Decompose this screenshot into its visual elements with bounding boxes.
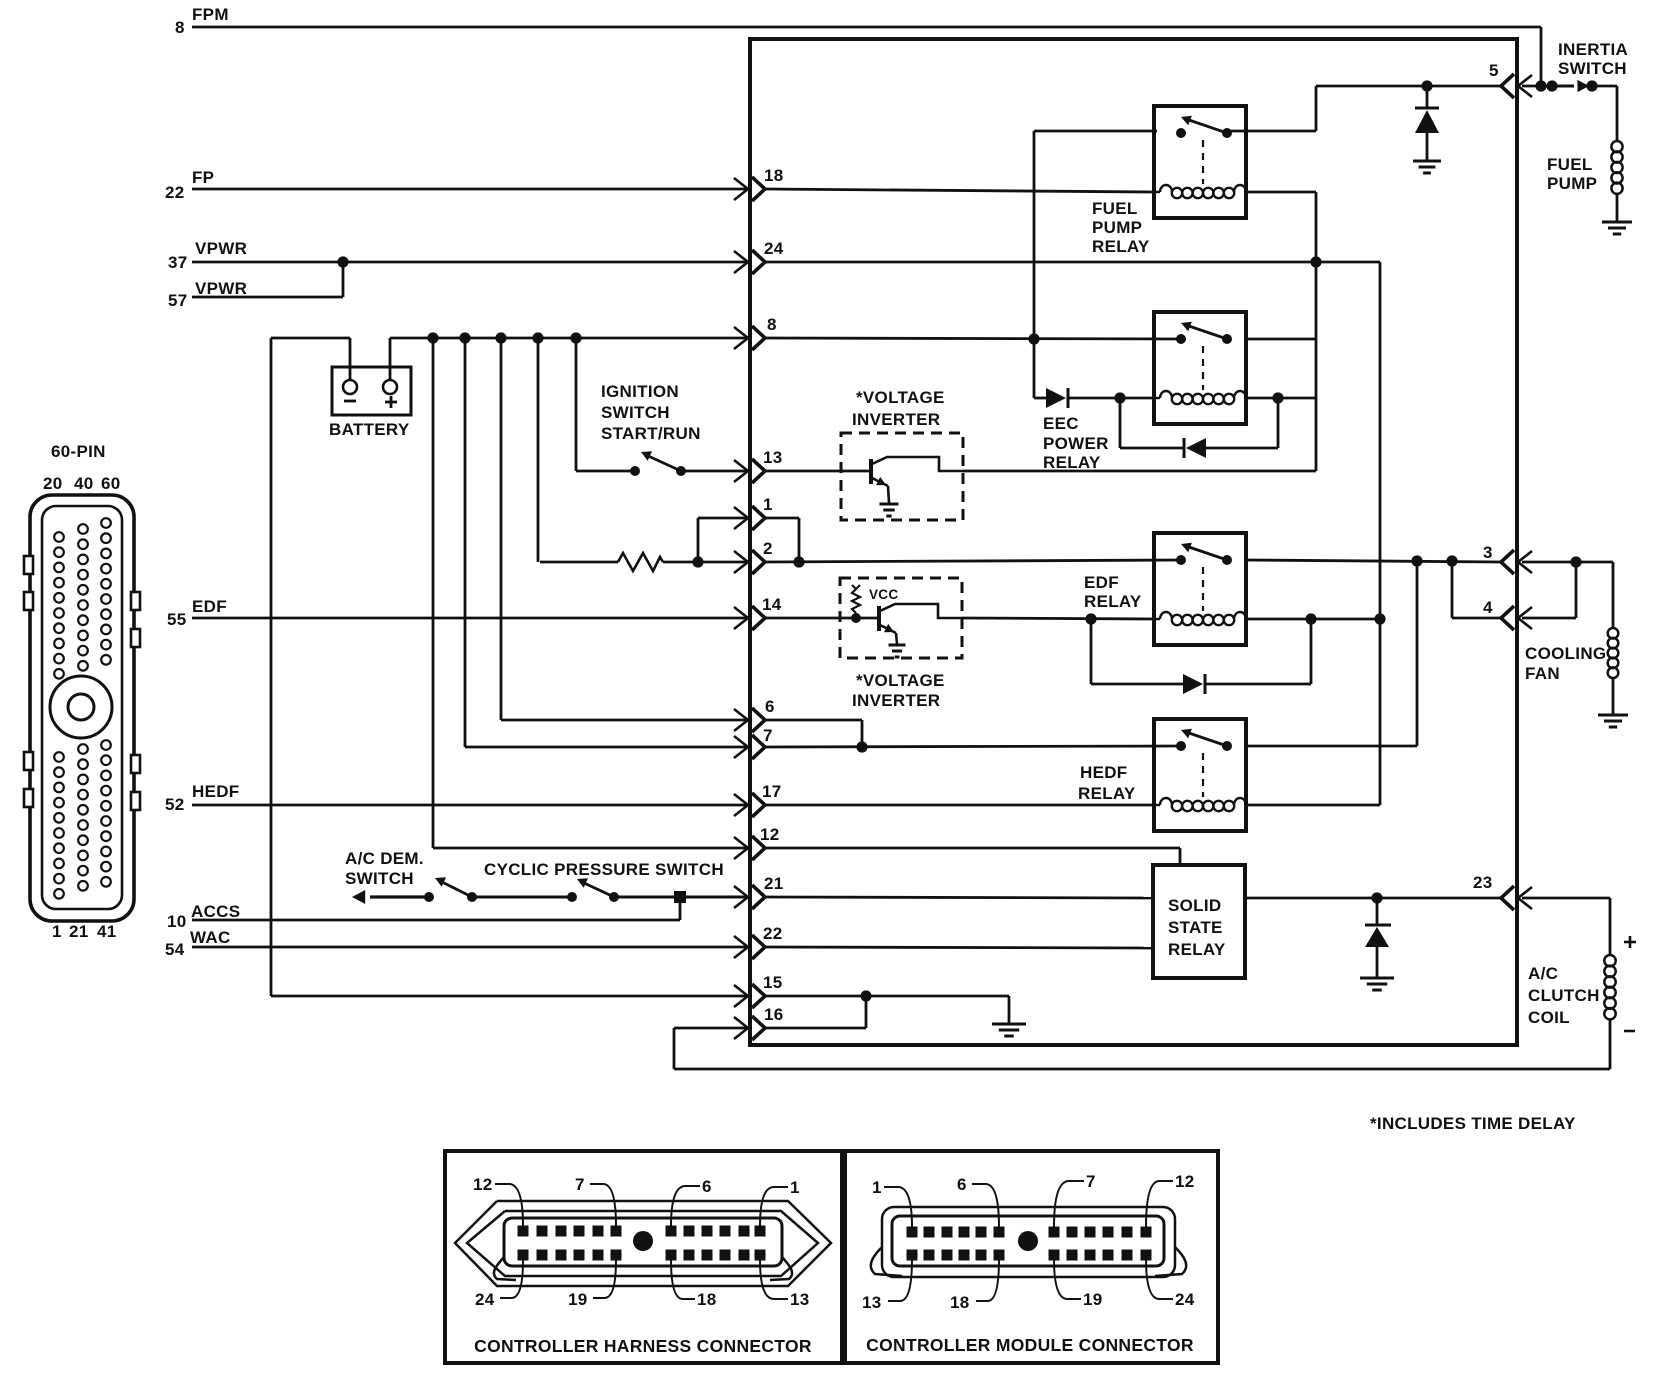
svg-text:A/C DEM.: A/C DEM.	[345, 849, 424, 868]
module pin 1 callout	[872, 1178, 912, 1227]
pin 5 chevron	[1489, 61, 1532, 98]
svg-text:RELAY: RELAY	[1084, 592, 1142, 611]
A/C clutch coil L1	[1604, 955, 1615, 1019]
svg-text:1: 1	[872, 1178, 882, 1197]
harness pin 6 callout	[671, 1177, 712, 1226]
svg-text:41: 41	[97, 922, 117, 941]
svg-text:POWER: POWER	[1043, 434, 1109, 453]
node EEC contact junction	[1028, 333, 1039, 344]
A/C clutch coil label	[1528, 964, 1600, 1027]
wire bus drop to pin 12	[433, 338, 747, 848]
svg-text:22: 22	[763, 924, 783, 943]
ignition switch S1	[630, 451, 686, 476]
svg-text:8: 8	[767, 315, 777, 334]
transistor Q2 voltage inverter VCC	[840, 578, 962, 658]
wire inverter 2 output to EDF coil	[962, 618, 1154, 619]
pin 3 chevron	[1483, 543, 1532, 574]
svg-text:18: 18	[950, 1293, 970, 1312]
transistor Q1 voltage inverter	[841, 433, 963, 520]
svg-text:INERTIA: INERTIA	[1558, 40, 1628, 59]
harness pin 18 callout	[671, 1260, 717, 1309]
svg-text:RELAY: RELAY	[1043, 453, 1101, 472]
svg-text:6: 6	[702, 1177, 712, 1196]
svg-text:FPM: FPM	[192, 5, 229, 24]
ignition switch label	[601, 382, 701, 443]
svg-text:8: 8	[175, 18, 185, 37]
note includes time delay	[1370, 1114, 1576, 1133]
controller module connector J3	[845, 1151, 1218, 1363]
cyclic pressure switch label	[484, 860, 724, 879]
wire pin 5 to inertia switch	[1522, 85, 1552, 88]
wire pins 6-7 inside join	[765, 720, 868, 753]
wire pin 14 to inverter 2	[765, 617, 841, 620]
node clamp diode junction	[1371, 892, 1382, 903]
svg-text:5: 5	[1489, 61, 1499, 80]
svg-text:FP: FP	[192, 168, 214, 187]
svg-text:15: 15	[763, 973, 783, 992]
svg-text:VCC: VCC	[869, 587, 898, 602]
wire pin 7 to HEDF contact	[765, 746, 1181, 747]
A/C clutch polarity plus	[1624, 936, 1636, 948]
wire A/C clutch coil return	[1609, 1019, 1612, 1069]
svg-text:1: 1	[763, 495, 773, 514]
module pin 6 callout	[957, 1175, 999, 1227]
svg-text:RELAY: RELAY	[1078, 784, 1136, 803]
ground G1	[1413, 161, 1441, 173]
pin 18 chevron	[734, 166, 784, 201]
fuel pump relay label	[1092, 199, 1150, 256]
diode CR1	[1046, 388, 1068, 408]
wire main rail x1316	[1315, 192, 1318, 471]
svg-text:SWITCH: SWITCH	[1558, 59, 1627, 78]
ground G3	[992, 1024, 1026, 1036]
svg-text:2: 2	[763, 539, 773, 558]
ground G4	[1602, 222, 1632, 234]
wire bus drop to pin 7	[465, 338, 747, 747]
wire WAC pin 54 to chevron 22	[192, 946, 747, 949]
pin 22 chevron	[734, 924, 783, 959]
relay K4 HEDF relay	[1154, 719, 1246, 831]
svg-text:SWITCH: SWITCH	[601, 403, 670, 422]
svg-text:WAC: WAC	[190, 928, 231, 947]
cooling fan label	[1525, 644, 1606, 683]
pin 1 chevron	[734, 495, 773, 530]
wire pin 12 to solid state relay	[765, 848, 1180, 865]
wire fuel pump relay left contact	[1034, 131, 1157, 339]
wire battery bus to pin 15	[271, 995, 747, 998]
cyclic pressure switch S3	[567, 878, 619, 902]
HEDF relay label	[1078, 763, 1136, 803]
svg-text:FUEL: FUEL	[1092, 199, 1138, 218]
wire diode to EEC coil	[1068, 397, 1154, 400]
node HEDF feed junction	[1411, 555, 1422, 566]
node bus junction A	[427, 332, 438, 343]
node bus junction C	[495, 332, 506, 343]
svg-text:STATE: STATE	[1168, 918, 1223, 937]
harness pin 7 callout	[575, 1175, 616, 1226]
A/C demand switch arrow	[352, 890, 429, 904]
wire EDF flyback left leg	[1091, 619, 1183, 684]
wire cooling fan to ground	[1612, 677, 1615, 714]
A/C clutch polarity minus	[1624, 1030, 1635, 1033]
wire pin 3 to cooling fan	[1522, 562, 1613, 628]
resistor R1	[540, 553, 747, 571]
svg-text:SOLID: SOLID	[1168, 896, 1221, 915]
EDF relay label	[1084, 573, 1142, 611]
svg-text:4: 4	[1483, 598, 1493, 617]
svg-text:54: 54	[165, 940, 185, 959]
voltage inverter U2 label	[852, 671, 945, 710]
net FP label	[165, 168, 214, 202]
pin 13 chevron	[734, 448, 783, 483]
pin 24 chevron	[734, 239, 784, 274]
svg-text:24: 24	[475, 1290, 495, 1309]
wire bus drop to resistor	[537, 338, 540, 562]
svg-text:*INCLUDES TIME DELAY: *INCLUDES TIME DELAY	[1370, 1114, 1576, 1133]
wire EEC flyback right leg	[1206, 398, 1278, 448]
EEC power relay label	[1043, 414, 1109, 472]
wire pin 2 to EDF contact	[765, 560, 1181, 562]
diode CR3	[1415, 86, 1439, 160]
svg-text:37: 37	[168, 253, 188, 272]
wire pin 18 to fuel pump relay coil	[765, 189, 1154, 192]
wire pin 8 to EEC relay contact	[765, 338, 1181, 339]
pin 16 chevron	[734, 1005, 784, 1040]
wire to chevron 21	[614, 896, 747, 899]
node bus junction B	[459, 332, 470, 343]
cooling fan M2 coil	[1608, 628, 1619, 678]
wire EDF coil right to VPWR rail	[1246, 618, 1380, 621]
svg-text:PUMP: PUMP	[1547, 174, 1597, 193]
svg-text:CLUTCH: CLUTCH	[1528, 986, 1600, 1005]
net FPM label	[175, 5, 229, 37]
pin 7 chevron	[734, 726, 773, 759]
svg-text:17: 17	[762, 782, 782, 801]
svg-text:COIL: COIL	[1528, 1008, 1570, 1027]
wire chevron 16 to A/C clutch return	[674, 1028, 1610, 1069]
svg-text:7: 7	[575, 1175, 585, 1194]
solid state relay K5	[1153, 865, 1245, 978]
wire bus drop to pin 6	[501, 338, 747, 720]
wire HEDF contact riser	[1246, 561, 1417, 746]
wire EDF right contact to pin 3	[1246, 560, 1501, 562]
svg-text:10: 10	[167, 912, 187, 931]
relay K1 fuel pump relay	[1154, 106, 1246, 218]
node pin 24 junction	[1310, 256, 1321, 267]
svg-text:EEC: EEC	[1043, 414, 1079, 433]
wire VPWR 37 to chevron 24	[192, 261, 747, 264]
net HEDF label	[165, 782, 239, 814]
relay K3 EDF relay	[1154, 533, 1246, 645]
svg-text:24: 24	[764, 239, 784, 258]
wire fuel pump coil right	[1246, 191, 1316, 194]
svg-text:60-PIN: 60-PIN	[51, 442, 106, 461]
wire outside bracket pins 3-4	[1522, 562, 1576, 618]
svg-text:RELAY: RELAY	[1168, 940, 1226, 959]
controller harness connector label	[474, 1336, 812, 1356]
inertia switch S4	[1546, 80, 1597, 92]
svg-text:HEDF: HEDF	[1080, 763, 1127, 782]
node FPM junction	[1535, 80, 1546, 91]
svg-text:1: 1	[790, 1178, 800, 1197]
svg-text:21: 21	[69, 922, 89, 941]
A/C demand switch S2	[424, 877, 477, 902]
node EDF coil left junction	[1085, 613, 1096, 624]
pin 6 chevron	[734, 697, 775, 732]
harness pin 1 callout	[760, 1178, 800, 1226]
wire FP pin 22 to chevron 18	[192, 188, 747, 191]
node resistor junction	[692, 556, 703, 567]
ground G2	[1360, 978, 1394, 990]
net VPWR 37 label	[168, 239, 247, 272]
wire EEC flyback left leg	[1120, 398, 1184, 448]
module pin 24 callout	[1146, 1259, 1195, 1309]
diode CR5	[1365, 898, 1391, 977]
wire EDF flyback right leg	[1205, 619, 1311, 684]
svg-text:SWITCH: SWITCH	[345, 869, 414, 888]
node EDF coil right junction	[1305, 613, 1316, 624]
harness pin 24 callout	[475, 1260, 523, 1309]
svg-text:*VOLTAGE: *VOLTAGE	[856, 388, 945, 407]
harness pin 13 callout	[760, 1260, 810, 1309]
wire ignition switch to chevron 13	[681, 470, 747, 473]
svg-text:INVERTER: INVERTER	[852, 410, 940, 429]
node VPWR junction	[337, 256, 348, 267]
controller module outer box	[750, 39, 1517, 1045]
svg-text:CYCLIC PRESSURE SWITCH: CYCLIC PRESSURE SWITCH	[484, 860, 724, 879]
wire battery negative to x271 bus	[271, 338, 350, 996]
wire outside bracket pins 1-2	[698, 518, 747, 562]
svg-text:6: 6	[957, 1175, 967, 1194]
svg-text:13: 13	[790, 1290, 810, 1309]
60-pin connector labels	[43, 442, 121, 941]
svg-text:FUEL: FUEL	[1547, 155, 1593, 174]
svg-text:19: 19	[568, 1290, 588, 1309]
pin 17 chevron	[734, 782, 782, 817]
diode CR2	[1184, 438, 1206, 458]
node bus junction E	[570, 332, 581, 343]
svg-text:EDF: EDF	[1084, 573, 1119, 592]
wire VPWR 57 stub	[192, 262, 343, 297]
svg-text:A/C: A/C	[1528, 964, 1558, 983]
node pin 4 bracket junction	[1446, 555, 1457, 566]
svg-text:12: 12	[1175, 1172, 1195, 1191]
svg-text:12: 12	[760, 825, 780, 844]
svg-text:18: 18	[697, 1290, 717, 1309]
ground G5	[1598, 715, 1628, 727]
wire pin 24 VPWR rail	[765, 262, 1380, 618]
svg-text:18: 18	[764, 166, 784, 185]
wire fuel pump contact to pin 5	[1227, 86, 1501, 131]
svg-text:12: 12	[473, 1175, 493, 1194]
wire VPWR rail to HEDF coil	[1246, 619, 1380, 805]
fuel pump label	[1547, 155, 1597, 193]
wire battery positive bus to chevron 8	[390, 338, 747, 380]
harness pin 19 callout	[568, 1260, 616, 1309]
wire switch link	[472, 896, 572, 899]
net WAC label	[165, 928, 231, 959]
svg-text:60: 60	[101, 474, 121, 493]
svg-text:RELAY: RELAY	[1092, 237, 1150, 256]
svg-text:52: 52	[165, 795, 185, 814]
wire EEC series diode leg	[1034, 339, 1046, 398]
pin 23 chevron	[1473, 873, 1532, 910]
svg-text:23: 23	[1473, 873, 1493, 892]
svg-text:24: 24	[1175, 1290, 1195, 1309]
wire FPM pin 8 to inertia junction	[192, 27, 1541, 86]
svg-text:13: 13	[862, 1293, 882, 1312]
pin 4 chevron	[1483, 598, 1532, 630]
svg-text:IGNITION: IGNITION	[601, 382, 679, 401]
wire ACCS pin 10	[192, 897, 680, 920]
pin 14 chevron	[734, 595, 782, 630]
svg-text:COOLING: COOLING	[1525, 644, 1606, 663]
svg-text:VPWR: VPWR	[195, 279, 247, 298]
fuel pump M1 coil	[1611, 141, 1622, 194]
controller harness connector J2	[445, 1151, 842, 1363]
voltage inverter U1 label	[852, 388, 945, 429]
wire fuel pump to ground	[1616, 193, 1619, 221]
battery B1	[329, 367, 411, 439]
node ACCS junction	[674, 891, 686, 903]
svg-text:INVERTER: INVERTER	[852, 691, 940, 710]
svg-text:14: 14	[762, 595, 782, 614]
svg-text:40: 40	[74, 474, 94, 493]
wire inside bracket pins 1-2	[765, 518, 805, 568]
wire inverter output to rail	[963, 470, 1316, 473]
wire solid state relay output to pin 23	[1245, 897, 1501, 900]
svg-text:21: 21	[764, 874, 784, 893]
relay K2 EEC power relay	[1154, 312, 1246, 424]
svg-text:20: 20	[43, 474, 63, 493]
svg-text:EDF: EDF	[192, 597, 227, 616]
A/C demand switch label	[345, 849, 424, 888]
net ACCS label	[167, 902, 240, 931]
svg-text:55: 55	[167, 610, 187, 629]
wire pin 17 to HEDF coil	[765, 804, 1154, 807]
svg-text:7: 7	[763, 726, 773, 745]
svg-text:19: 19	[1083, 1290, 1103, 1309]
svg-text:7: 7	[1086, 1172, 1096, 1191]
svg-text:FAN: FAN	[1525, 664, 1560, 683]
svg-text:BATTERY: BATTERY	[329, 420, 410, 439]
wire bus drop to ignition switch	[576, 338, 635, 471]
pin 21 chevron	[734, 874, 784, 909]
svg-text:START/RUN: START/RUN	[601, 424, 701, 443]
controller module connector label	[866, 1335, 1194, 1355]
wire HEDF pin 52 to chevron 17	[192, 804, 747, 807]
net EDF label	[167, 597, 227, 629]
node EEC coil right junction	[1272, 392, 1283, 403]
pin 8 chevron	[734, 315, 777, 350]
svg-text:1: 1	[52, 922, 62, 941]
node EEC coil left junction	[1114, 392, 1125, 403]
harness pin 12 callout	[473, 1175, 523, 1226]
wire pin 23 to A/C clutch coil	[1522, 898, 1610, 955]
module pin 12 callout	[1146, 1172, 1195, 1227]
net VPWR 57 label	[168, 279, 247, 310]
svg-text:22: 22	[165, 183, 185, 202]
node diode junction	[1421, 80, 1432, 91]
pin 2 chevron	[734, 539, 773, 574]
wire EDF pin 55 to chevron 14	[192, 617, 747, 620]
wire pin 22 to solid state relay	[765, 947, 1153, 948]
wire pin 21 to solid state relay	[765, 897, 1153, 898]
svg-text:CONTROLLER MODULE CONNECTOR: CONTROLLER MODULE CONNECTOR	[866, 1335, 1194, 1355]
svg-text:13: 13	[763, 448, 783, 467]
diode CR4	[1183, 674, 1205, 694]
svg-text:*VOLTAGE: *VOLTAGE	[856, 671, 945, 690]
wire EEC coil right to rail	[1246, 397, 1316, 400]
svg-text:3: 3	[1483, 543, 1493, 562]
svg-text:HEDF: HEDF	[192, 782, 239, 801]
module pin 19 callout	[1054, 1259, 1103, 1309]
wire EEC right contact	[1246, 338, 1316, 341]
node VPWR rail junction	[1374, 613, 1385, 624]
wire inertia switch to fuel pump	[1592, 86, 1617, 141]
wire pins 15-16 to ground	[765, 990, 1009, 1028]
module pin 7 callout	[1054, 1172, 1096, 1227]
node cooling fan junction	[1570, 556, 1581, 567]
pin 12 chevron	[734, 825, 780, 860]
svg-text:PUMP: PUMP	[1092, 218, 1142, 237]
svg-text:57: 57	[168, 291, 188, 310]
module pin 18 callout	[950, 1259, 999, 1312]
module pin 13 callout	[862, 1259, 912, 1312]
svg-text:16: 16	[764, 1005, 784, 1024]
svg-text:6: 6	[765, 697, 775, 716]
wire pin 13 to inverter	[765, 470, 841, 473]
pin 15 chevron	[734, 973, 783, 1008]
svg-text:VPWR: VPWR	[195, 239, 247, 258]
node bus junction D	[532, 332, 543, 343]
inertia switch label	[1558, 40, 1628, 78]
svg-text:ACCS: ACCS	[191, 902, 240, 921]
svg-text:CONTROLLER HARNESS CONNECTOR: CONTROLLER HARNESS CONNECTOR	[474, 1336, 812, 1356]
wire inside bracket pins 3-4	[1452, 561, 1501, 618]
60-pin connector J1	[24, 495, 140, 921]
